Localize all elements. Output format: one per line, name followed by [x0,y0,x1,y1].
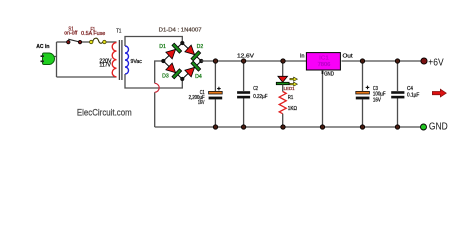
transformer T1 core [119,40,122,80]
junction dot R1 bottom [281,125,285,129]
junction dot C4 top [395,59,399,63]
capacitor C4 [391,61,404,127]
svg-text:D3: D3 [162,73,169,79]
svg-text:1KΩ: 1KΩ [288,106,297,112]
svg-text:AC in: AC in [36,44,50,50]
fuse F1 [90,38,107,44]
node top [180,41,184,45]
junction dot C3 bottom [360,125,364,129]
svg-text:7806: 7806 [318,62,331,68]
svg-text:T1: T1 [116,28,121,34]
svg-text:IC1: IC1 [319,55,329,61]
wire hop (crossover) [155,83,160,92]
svg-text:0.22µF: 0.22µF [253,94,267,100]
capacitor C2 [237,61,250,127]
junction dot IC1 GND bottom [320,125,324,129]
bridge wires (diamond) [163,43,201,79]
svg-text:0.5A Fuse: 0.5A Fuse [81,31,105,37]
svg-text:D2: D2 [197,44,204,50]
svg-text:12.6V: 12.6V [237,53,255,59]
svg-text:C2: C2 [253,86,258,92]
svg-text:16V: 16V [373,97,382,103]
wire: secondary top to bridge top node [125,37,182,47]
node bottom [180,77,184,81]
junction dot C1 bottom [213,125,217,129]
wire: positive rail (bridge to IC1 In) [201,60,306,62]
wire: bottom ground rail [155,126,421,128]
wire: plug stub [52,56,57,58]
svg-text:on-off: on-off [64,31,78,37]
terminal +6V [421,58,427,64]
svg-text:LED1: LED1 [284,86,295,92]
LED LED1 [276,61,297,86]
svg-text:9Vac: 9Vac [131,59,143,65]
svg-text:In: In [300,53,304,59]
svg-text:D1: D1 [159,44,166,50]
output arrow [432,89,446,97]
svg-text:0.1µF: 0.1µF [407,93,419,99]
svg-text:Out: Out [343,53,354,59]
junction dot C1 top [213,59,217,63]
switch S1 [67,39,82,44]
resistor R1 [279,85,286,127]
wire: IC1 GND lead [322,74,324,127]
capacitor C3 [356,61,370,127]
transformer T1 primary winding [112,43,116,77]
terminal GND [421,124,427,130]
svg-text:R1: R1 [288,95,294,101]
regulator IC1 [306,53,340,74]
wire: primary bottom rail [57,76,117,78]
AC plug [41,53,55,65]
wire: F1 to T1 primary top [106,41,117,43]
svg-text:16V: 16V [198,100,205,106]
wire: bridge left node to negative rail [155,61,164,127]
svg-text:GND: GND [324,72,334,78]
wire: secondary bottom to bridge bottom node [125,74,182,88]
wire: S1 to F1 [81,41,93,43]
transformer T1 secondary winding [125,46,129,74]
junction dot C3 top [360,59,364,63]
junction dot C4 bottom [395,125,399,129]
svg-text:ElecCircuit.com: ElecCircuit.com [77,108,132,118]
wire: left vertical (plug to rails) [56,42,58,77]
svg-text:D1-D4 : 1N4007: D1-D4 : 1N4007 [159,28,202,34]
junction dot C2 top [241,59,245,63]
wire: positive rail (IC1 Out to +6V) [342,60,422,62]
svg-text:+6V: +6V [428,57,444,68]
svg-text:D4: D4 [195,74,202,80]
diode D4 [184,61,200,77]
capacitor C1 [209,61,223,127]
svg-text:117V: 117V [99,63,111,69]
diode D1 [165,43,181,59]
node left [161,59,165,63]
junction dot LED top [281,59,285,63]
wire: top rail, plug corner to S1 [57,41,69,43]
svg-text:C4: C4 [407,86,413,92]
svg-text:GND: GND [429,121,448,132]
diode D3 [165,63,181,79]
diode D2 [184,45,200,61]
node right [199,59,203,63]
junction dot C2 bottom [241,125,245,129]
